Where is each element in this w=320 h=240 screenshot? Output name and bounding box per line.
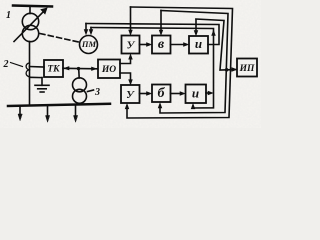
- svg-text:У: У: [126, 89, 135, 101]
- svg-text:ПМ: ПМ: [81, 39, 97, 49]
- svg-text:ИО: ИО: [101, 65, 116, 75]
- svg-text:2: 2: [3, 59, 9, 70]
- svg-text:б: б: [158, 86, 166, 101]
- svg-text:в: в: [158, 37, 165, 52]
- svg-text:3: 3: [94, 87, 100, 98]
- svg-text:и: и: [192, 86, 199, 101]
- svg-text:ИП: ИП: [239, 64, 255, 74]
- svg-text:и: и: [195, 36, 202, 51]
- svg-text:ТК: ТК: [47, 65, 60, 75]
- svg-text:1: 1: [6, 10, 11, 21]
- svg-text:У: У: [127, 40, 136, 52]
